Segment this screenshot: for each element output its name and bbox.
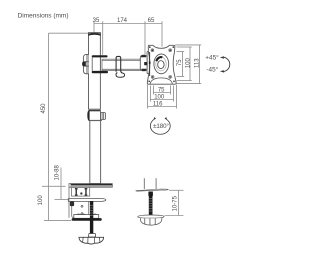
collar flange top (92, 55, 108, 57)
clamp slot left (75, 188, 78, 196)
clamp slot right (85, 188, 88, 196)
svg-text:450: 450 (41, 103, 47, 114)
svg-text:+45°: +45° (205, 54, 219, 62)
clamp press pad (68, 199, 106, 202)
desk clamp slot bracket (72, 187, 90, 196)
svg-text:100: 100 (38, 195, 44, 206)
clamp knob ribs (83, 237, 100, 243)
dim 10-88 clamp range (55, 168, 69, 200)
pole clamp collar bulge (83, 54, 88, 73)
pole cap (89, 33, 101, 35)
vesa plate (147, 45, 176, 84)
tilt bracket dark bottom (141, 69, 146, 71)
clamp panel hole lower (81, 212, 83, 214)
dim 10-75 grommet range (165, 190, 184, 215)
svg-text:10-88: 10-88 (54, 164, 60, 180)
grommet rod (149, 192, 153, 216)
clamp panel hole upper (81, 205, 83, 207)
dim 174 top (144, 21, 146, 55)
svg-text:174: 174 (117, 18, 128, 24)
svg-text:75: 75 (158, 87, 165, 93)
clamp screw rod (90, 201, 93, 233)
flange spine (91, 57, 93, 71)
desk clamp top plate (69, 184, 112, 188)
svg-text:116: 116 (153, 101, 163, 107)
rotation disc (154, 54, 169, 74)
vesa plate latch dark (149, 62, 151, 64)
vesa hole TL (149, 46, 154, 51)
vesa hole BR (169, 76, 175, 83)
dim 113 vertical right (175, 45, 201, 84)
vesa side profile (147, 51, 150, 73)
clamp arm block (74, 214, 99, 218)
svg-text:10-75: 10-75 (172, 195, 178, 211)
grommet foot bowl (140, 218, 161, 225)
vesa plate left edge shade (149, 52, 151, 76)
clamp knob neck (89, 234, 96, 237)
tilt bracket (140, 55, 147, 71)
svg-text:±180°: ±180° (153, 123, 169, 130)
dim 75 vertical right (177, 52, 185, 77)
annotation ±180 circle arrow (150, 119, 170, 134)
pole upper tube (89, 33, 101, 110)
svg-text:100: 100 (154, 94, 165, 100)
clamp back edge (68, 187, 70, 218)
tilt arc arrow (223, 57, 230, 71)
collar dark top edge (89, 110, 100, 112)
svg-text:113: 113 (194, 58, 200, 68)
clamp dark bar (72, 218, 102, 221)
vesa hole BL (148, 76, 154, 83)
clamp pad bracket (70, 201, 74, 206)
pole height adjust collar (89, 110, 106, 120)
pole lower tube (90, 121, 101, 184)
arm ring joint (116, 56, 122, 73)
arm tube (101, 57, 141, 71)
clamp bracket bolt (80, 193, 82, 195)
clamp knob (79, 237, 104, 244)
dim 450 left (42, 33, 89, 220)
clamp lower panel (72, 200, 89, 217)
svg-text:75: 75 (177, 59, 183, 66)
tilt bracket dark top (141, 55, 146, 57)
arm hook (116, 73, 125, 78)
svg-text:35: 35 (93, 18, 100, 24)
grommet foot rim (138, 215, 164, 218)
vesa hole TR (169, 46, 174, 51)
collar flange bottom (92, 71, 108, 73)
svg-text:Dimensions (mm): Dimensions (mm) (18, 13, 69, 20)
dim 116 horizontal below plate (148, 85, 177, 109)
collar dark left strip (87, 110, 89, 121)
dim 75 horizontal below plate (154, 86, 171, 95)
dim 100 horizontal below plate (151, 86, 174, 102)
dim 65 top (161, 21, 163, 47)
svg-text:-45°: -45° (206, 66, 218, 74)
vesa plate bottom arch (150, 78, 172, 84)
tilt bracket pivot (144, 62, 147, 65)
dim 35 top (94, 21, 162, 55)
dim 100 vertical right (177, 47, 192, 81)
grommet top plate (136, 189, 169, 191)
svg-text:100: 100 (185, 58, 191, 69)
grommet pole stub (144, 178, 156, 189)
collar side knob (82, 62, 86, 67)
svg-text:65: 65 (148, 18, 155, 24)
